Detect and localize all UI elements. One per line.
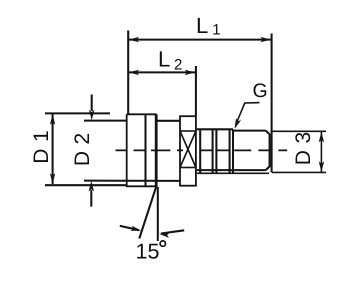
svg-text:15: 15 (136, 240, 160, 264)
svg-text:D1: D1 (30, 124, 53, 164)
svg-text:D2: D2 (71, 126, 94, 166)
svg-text:2: 2 (174, 57, 182, 74)
svg-text:L: L (158, 47, 170, 72)
svg-text:D3: D3 (292, 125, 315, 165)
svg-text:L: L (196, 13, 208, 38)
svg-text:1: 1 (212, 22, 220, 39)
svg-text:G: G (253, 80, 268, 102)
